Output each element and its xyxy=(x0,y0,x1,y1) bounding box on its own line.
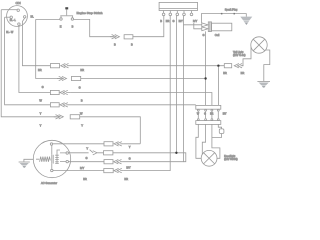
wire drop bus to row B xyxy=(36,19,63,78)
wire tail lamp to ground xyxy=(264,50,270,81)
svg-text:BL - L: BL - L xyxy=(10,20,17,22)
wire generator G row with light switch xyxy=(68,152,88,154)
svg-text:G: G xyxy=(173,19,175,23)
generator stator winding xyxy=(36,157,50,162)
connector female bullet row A xyxy=(61,64,72,68)
junction dot gen G / terminal G xyxy=(175,152,177,154)
connector housing on kill line xyxy=(124,35,133,39)
connector housing gen B/Y xyxy=(104,160,113,164)
wire lower pin1 to headlight left xyxy=(196,124,201,158)
connector male bullet row B xyxy=(57,76,67,80)
svg-text:B/Y: B/Y xyxy=(126,165,130,169)
connector female bullet row D xyxy=(60,103,72,107)
wire CDI top pin to left bus xyxy=(1,9,17,11)
svg-text:(12V 90/90): (12V 90/90) xyxy=(224,157,238,161)
wire inline connector to pin3 branch xyxy=(212,134,222,138)
svg-text:B/Y: B/Y xyxy=(179,19,183,23)
svg-text:BR: BR xyxy=(241,71,245,75)
wire HT lead to spark plug xyxy=(201,14,246,23)
HT lead connector tick 1 xyxy=(221,13,223,15)
svg-text:Spark Plug: Spark Plug xyxy=(225,7,238,11)
wire kill line to terminal B xyxy=(133,16,164,37)
wire coil G down to headlight connector xyxy=(205,31,207,105)
wire tail connector to tail lamp xyxy=(242,47,251,66)
HT lead connector tick 2 xyxy=(234,13,236,15)
wire row B G to coil ground xyxy=(81,78,206,80)
wire row E to generator Y drop xyxy=(80,117,141,144)
svg-text:BR: BR xyxy=(83,177,87,181)
wire left bus down to row D xyxy=(5,17,51,105)
svg-text:W: W xyxy=(197,114,200,116)
headlight lamp L2 xyxy=(201,150,217,166)
wire row C to headlight connector pin3 xyxy=(71,93,212,106)
svg-text:BR: BR xyxy=(38,68,42,72)
svg-text:Y: Y xyxy=(40,124,42,128)
svg-text:W: W xyxy=(39,99,42,103)
svg-text:E: E xyxy=(60,24,62,28)
svg-text:BL - W: BL - W xyxy=(6,32,14,34)
connector housing row A xyxy=(50,64,59,68)
connector housing gen BR xyxy=(104,169,113,173)
wire row D to headlight connector bar xyxy=(72,104,196,106)
svg-text:B: B xyxy=(81,99,83,103)
svg-text:BR: BR xyxy=(223,71,227,75)
wire gen Y to drop xyxy=(123,143,140,145)
svg-text:W: W xyxy=(80,112,83,116)
svg-text:G: G xyxy=(204,114,206,116)
wire B/Y terminal down to generator B/Y row xyxy=(122,16,183,162)
wire B/Y coil terminal down xyxy=(194,23,202,29)
svg-text:B/Y: B/Y xyxy=(193,19,197,23)
connector male bullet on kill line xyxy=(110,35,120,39)
wire BR terminal down to generator BR row xyxy=(123,16,170,171)
svg-text:G: G xyxy=(203,33,205,37)
wire CDI bottom pin down to row C xyxy=(19,25,51,92)
CDI unit U1 (round connector) xyxy=(7,6,28,27)
wire lower pin4 to inline connector xyxy=(218,124,221,128)
svg-text:G: G xyxy=(42,85,44,89)
connector housing row E xyxy=(70,115,80,119)
svg-text:Coil: Coil xyxy=(215,33,220,37)
wire CDI right pin down to row A xyxy=(22,18,50,66)
terminal block J1 xyxy=(159,2,197,15)
svg-text:Y: Y xyxy=(129,145,131,149)
inline connector square xyxy=(219,129,224,134)
wire switch left terminal to drop bus xyxy=(36,18,60,20)
engine stop switch S1 xyxy=(60,7,74,20)
connector housing row C xyxy=(50,90,59,94)
headlight connector lower bar xyxy=(196,119,221,125)
svg-text:(12V 3.4w): (12V 3.4w) xyxy=(233,53,246,57)
generator internal connections xyxy=(52,145,66,169)
wire CDI left pin stub xyxy=(5,16,10,18)
wire left bus down to row E xyxy=(1,10,59,117)
svg-text:BR: BR xyxy=(124,177,128,181)
svg-text:G: G xyxy=(79,86,81,90)
wire pins between connector bars xyxy=(198,112,218,119)
svg-text:B: B xyxy=(131,42,133,46)
svg-text:BL: BL xyxy=(31,14,35,18)
AC generator G1 xyxy=(33,140,70,177)
svg-text:BR: BR xyxy=(80,68,84,72)
ground tail light xyxy=(257,82,270,88)
wire switch right terminal to kill line xyxy=(74,19,115,36)
connector female bullet gen BR xyxy=(114,168,123,172)
connector housing row D xyxy=(50,103,59,107)
junction dot row A / headlight B/Y drop xyxy=(217,65,219,67)
connector housing gen G xyxy=(104,151,113,155)
svg-text:B/Y: B/Y xyxy=(223,114,227,116)
wire lower pin3 to headlight right xyxy=(212,124,220,158)
wire generator Y row xyxy=(53,143,104,145)
svg-text:G: G xyxy=(86,156,88,160)
connector female bullet gen Y xyxy=(114,142,123,146)
svg-text:B: B xyxy=(72,24,74,28)
svg-text:BR: BR xyxy=(210,114,214,116)
wire generator B/Y row xyxy=(68,161,104,163)
connector female bullet gen B/Y xyxy=(114,160,123,164)
connector housing gen Y xyxy=(104,142,113,146)
svg-text:B: B xyxy=(114,42,116,46)
generator ground wire xyxy=(24,159,34,162)
wire gen G to junction xyxy=(113,153,186,162)
svg-text:AC Generator: AC Generator xyxy=(41,181,57,185)
junction dot row B / coil G xyxy=(204,77,206,79)
wire B/Y bus to coil top bullet xyxy=(184,24,202,26)
connector female bullet tail xyxy=(234,64,243,68)
generator core and secondary xyxy=(52,155,59,164)
wire row A BR to tail light fuse xyxy=(72,65,225,67)
wire lower pin2 stub xyxy=(202,124,205,154)
svg-text:B/Y: B/Y xyxy=(80,166,84,170)
ignition coil T1 xyxy=(202,22,232,32)
svg-text:G: G xyxy=(129,156,131,160)
svg-text:CDI: CDI xyxy=(16,1,21,5)
headlight connector upper bar xyxy=(196,105,221,111)
connector female bullet row C xyxy=(60,90,71,94)
connector male bullet row E xyxy=(54,115,64,119)
svg-text:Y: Y xyxy=(86,147,88,151)
svg-text:Y: Y xyxy=(81,124,83,128)
wire headlight B/Y drop from row A dot xyxy=(217,67,219,106)
spark plug P1 xyxy=(240,17,252,25)
tail light lamp L1 xyxy=(251,37,267,53)
tail light fuse connector xyxy=(224,64,231,68)
svg-text:Engine Stop Switch: Engine Stop Switch xyxy=(77,11,103,15)
ground generator xyxy=(19,162,30,168)
wire G terminal down to G junction xyxy=(175,16,177,153)
wire generator BR row xyxy=(53,170,104,172)
light switch blade xyxy=(90,150,94,153)
svg-text:BR: BR xyxy=(166,19,170,23)
connector housing row B xyxy=(72,76,81,80)
light switch male bullet xyxy=(93,151,104,155)
svg-text:B: B xyxy=(160,19,162,23)
svg-text:Y: Y xyxy=(40,112,42,116)
